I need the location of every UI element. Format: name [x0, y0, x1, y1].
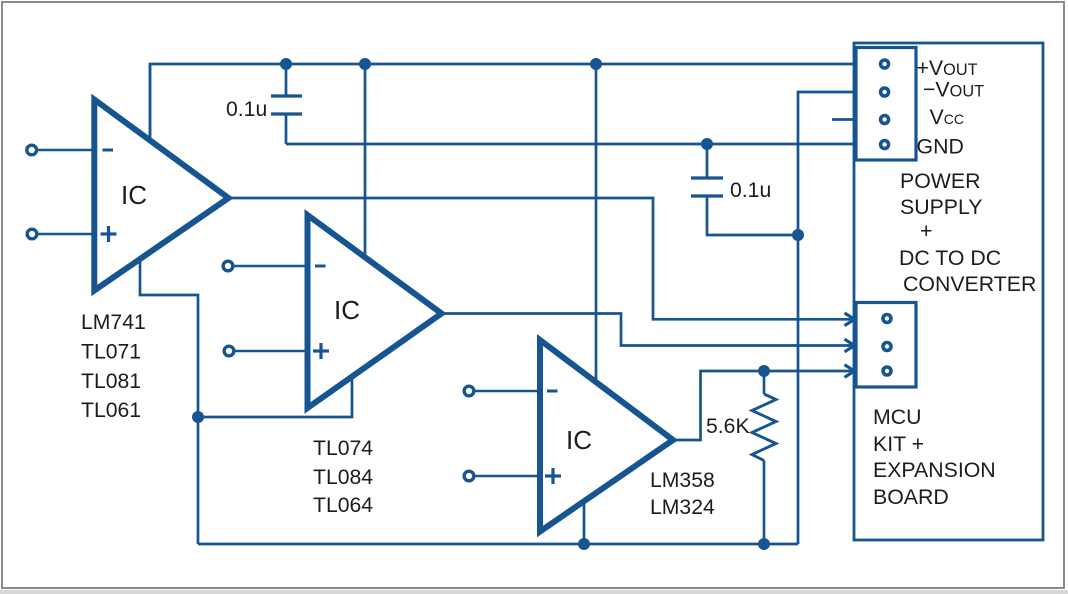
wire Vcc stub — [832, 118, 856, 121]
op-amp U1 triangle — [94, 100, 228, 291]
U3 inverting input pin — [464, 386, 557, 396]
power supply block outline — [854, 43, 1043, 540]
op-amp U2 triangle — [308, 215, 442, 408]
node junction V- net — [192, 411, 204, 423]
U2 inverting input pin — [223, 261, 325, 271]
wire U1 V- pin down — [140, 256, 198, 417]
svg-text:CONVERTER: CONVERTER — [903, 272, 1036, 296]
wire bottom rail — [198, 543, 798, 546]
svg-text:+: + — [920, 219, 932, 243]
wire U2 output — [443, 314, 853, 346]
node junction bottom rail / R1 — [758, 538, 770, 550]
node junction bottom rail / U3 V- — [578, 538, 590, 550]
wire -V vertical bus — [798, 92, 856, 544]
capacitor C2 0.1u — [691, 144, 798, 235]
node junction top rail / U2 riser — [359, 58, 371, 70]
svg-text:TL061: TL061 — [81, 399, 141, 422]
node junction top rail / U3 riser — [590, 58, 602, 70]
svg-text:0.1u: 0.1u — [730, 179, 771, 202]
svg-text:IC: IC — [121, 180, 147, 210]
svg-text:KIT +: KIT + — [873, 432, 924, 456]
J2 pin 3 — [883, 367, 891, 375]
wire V- net down to bottom rail — [197, 417, 200, 544]
op-amp U3 triangle — [540, 340, 673, 532]
node junction top rail / C1 — [280, 58, 292, 70]
J2 pin 1 — [883, 315, 891, 323]
U3 non-inverting input pin — [464, 468, 561, 484]
MCU connector J2 — [856, 303, 916, 388]
svg-text:LM358: LM358 — [650, 469, 715, 492]
svg-text:DC TO DC: DC TO DC — [899, 246, 1001, 270]
wire U3 V- pin down — [583, 500, 586, 544]
svg-text:LM741: LM741 — [81, 311, 146, 334]
U1 inverting input pin — [27, 145, 113, 155]
wire V- net to U2 — [198, 378, 352, 417]
wire U3 output — [675, 371, 853, 440]
svg-text:GND: GND — [917, 135, 964, 159]
J1 pin 3 — [881, 116, 889, 124]
svg-text:TL071: TL071 — [81, 341, 141, 364]
svg-text:POWER: POWER — [900, 169, 980, 193]
wire GND rail — [286, 143, 856, 146]
svg-text:BOARD: BOARD — [873, 485, 949, 509]
svg-text:IC: IC — [334, 295, 360, 325]
svg-text:MCU: MCU — [873, 405, 922, 429]
capacitor C1 0.1u — [226, 64, 302, 144]
svg-text:TL074: TL074 — [313, 437, 373, 460]
wire top +V rail — [150, 64, 856, 141]
svg-text:0.1u: 0.1u — [226, 98, 267, 121]
J1 pin 4 — [881, 141, 889, 149]
svg-text:TL064: TL064 — [313, 494, 373, 517]
node junction output / R1 — [758, 365, 770, 377]
svg-text:TL084: TL084 — [313, 466, 373, 489]
arrow to MCU pin 3 — [845, 365, 855, 378]
wire U3 V+ pin riser — [595, 64, 598, 385]
arrow to MCU pin 2 — [845, 339, 855, 352]
U2 non-inverting input pin — [224, 343, 329, 359]
U1 non-inverting input pin — [27, 226, 116, 242]
node junction -V bus / C2 — [792, 229, 804, 241]
svg-text:EXPANSION: EXPANSION — [873, 458, 996, 482]
node junction GND rail / C2 — [701, 138, 713, 150]
svg-text:5.6K: 5.6K — [706, 415, 750, 438]
svg-text:LM324: LM324 — [650, 496, 715, 519]
J1 pin 1 — [881, 60, 889, 68]
J1 pin 2 — [881, 88, 889, 96]
wire U1 V+ pin riser — [149, 64, 152, 141]
arrow to MCU pin 1 — [845, 313, 855, 326]
wire U1 output — [229, 198, 853, 319]
power supply connector J1 — [856, 48, 916, 161]
svg-text:IC: IC — [566, 425, 592, 455]
svg-text:SUPPLY: SUPPLY — [900, 195, 982, 219]
resistor R1 5.6K — [706, 371, 776, 544]
J2 pin 2 — [883, 343, 891, 351]
wire U2 V+ pin riser — [364, 64, 367, 258]
svg-text:TL081: TL081 — [81, 370, 141, 393]
